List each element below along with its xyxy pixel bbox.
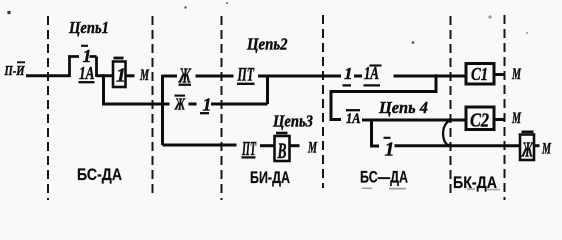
contact ПТ (circuit 2) value label bbox=[237, 65, 255, 86]
contact 1 (circuit 2 right) value label bbox=[343, 64, 353, 85]
svg-text:1: 1 bbox=[116, 65, 126, 87]
junction on circuit 1 bbox=[102, 74, 106, 78]
contact 1-bar (normally closed) value label bbox=[384, 138, 395, 161]
wire: contact Ж to contact ПТ bbox=[196, 75, 234, 78]
svg-text:ПТ: ПТ bbox=[237, 65, 255, 86]
svg-text:П-И: П-И bbox=[4, 64, 26, 79]
wire: dash between Ж-bar and 1 bbox=[189, 103, 197, 106]
svg-text:М: М bbox=[511, 110, 521, 127]
relay box С1 bbox=[466, 64, 494, 85]
svg-text:М: М bbox=[307, 139, 317, 156]
svg-text:Цепь2: Цепь2 bbox=[246, 35, 288, 54]
svg-text:БС—ДА: БС—ДА bbox=[360, 167, 408, 186]
contact 1А (circuit 2) value label bbox=[364, 63, 382, 85]
dashed boundary line 4 (БС-ДА 2 left) bbox=[322, 15, 324, 188]
dashed boundary line 2 bbox=[152, 16, 154, 198]
relay coil box 1 bbox=[113, 58, 126, 87]
contact ПТ (circuit 3) value label bbox=[241, 138, 256, 160]
svg-text:1: 1 bbox=[385, 139, 395, 161]
wire: node stub to contact ПТ (circuit 3) bbox=[163, 144, 237, 147]
wire: parallel branch of circuit 1 (up-over) bbox=[70, 57, 97, 78]
wire: box Ж to М bbox=[534, 144, 540, 147]
svg-text:БС-ДА: БС-ДА bbox=[77, 165, 122, 184]
scan speck bbox=[412, 41, 415, 44]
svg-text:М: М bbox=[139, 67, 149, 84]
wire: box В to М bbox=[290, 144, 300, 147]
junction to circuit 4 bbox=[434, 74, 438, 78]
svg-text:Ж: Ж bbox=[174, 95, 186, 114]
svg-text:Цепь 4: Цепь 4 bbox=[378, 98, 428, 117]
wire: box 1 to М bbox=[126, 74, 135, 77]
junction at node bbox=[161, 102, 165, 106]
contact 1 (Ж-1 row) value label bbox=[200, 94, 212, 114]
wire: branch from circuit 1 down and right to node bbox=[104, 76, 163, 104]
wire: contact 1-bar to box Ж bbox=[395, 144, 521, 147]
wire: ПТ to box В bbox=[260, 144, 275, 147]
scan speck bbox=[526, 32, 528, 34]
wire: contact 1А-bar to box С2 bbox=[362, 119, 466, 122]
wire: contact 1 to junction under ПТ bbox=[211, 103, 268, 106]
svg-text:Цепь1: Цепь1 bbox=[68, 18, 109, 37]
scan speck bbox=[184, 6, 186, 8]
contact 1А-bar (circuit 4) value label bbox=[346, 110, 361, 127]
wire: node vertical (joins rows Ж, Ж-1, ПТ-В) bbox=[161, 75, 164, 145]
relay box С2 bbox=[466, 107, 494, 132]
svg-text:1: 1 bbox=[344, 64, 353, 83]
wire: contact 1А to relay box 1 bbox=[97, 74, 114, 77]
dashed boundary line 3 (БИ-ДА left) bbox=[221, 16, 223, 200]
contact 1А (circuit 1) value label bbox=[79, 63, 95, 83]
contact Ж value label bbox=[178, 63, 192, 87]
wire: С1 to М bbox=[494, 73, 504, 76]
wire: input to contact 1А bbox=[26, 74, 70, 77]
dashed boundary line 5 (БК-ДА left) bbox=[450, 16, 452, 197]
contact Ж-bar (normally closed) value label bbox=[174, 95, 186, 114]
wire: Ж-1 branch row stub bbox=[163, 103, 170, 106]
scan speck bbox=[488, 15, 491, 18]
scan speck bbox=[487, 189, 500, 191]
wire: stub to contact Ж (circuit 2) bbox=[163, 75, 178, 78]
node П-Й input label bbox=[4, 62, 26, 79]
wire: С2 to М bbox=[494, 118, 504, 121]
svg-text:БИ-ДА: БИ-ДА bbox=[250, 168, 290, 187]
svg-text:М: М bbox=[511, 66, 521, 83]
wire: contact 1А to box С1 bbox=[394, 75, 467, 78]
svg-text:С1: С1 bbox=[471, 64, 488, 84]
scan speck bbox=[467, 188, 475, 190]
junction on С2 wire bbox=[448, 118, 452, 122]
scan speck bbox=[362, 188, 372, 190]
svg-text:В: В bbox=[277, 138, 287, 163]
wire: between contacts 1 and 1А bbox=[354, 75, 362, 78]
svg-text:М: М bbox=[541, 141, 551, 158]
scan speck bbox=[7, 11, 11, 15]
svg-text:1А: 1А bbox=[79, 63, 95, 83]
svg-text:Цепь3: Цепь3 bbox=[272, 111, 313, 130]
svg-text:С2: С2 bbox=[470, 110, 489, 132]
svg-text:1: 1 bbox=[203, 94, 212, 114]
wire: contact ПТ rightward across section line bbox=[258, 75, 341, 78]
wire: circuit 4 loop from junction down-left bbox=[331, 76, 436, 120]
wire: riser joining circuit 2 bbox=[266, 75, 269, 104]
svg-text:Ж: Ж bbox=[521, 138, 534, 162]
scan speck bbox=[389, 188, 406, 190]
relay box Ж (indicator) bbox=[520, 132, 534, 162]
wire: branch down from С2 row to 1-bar row bbox=[372, 120, 380, 146]
svg-text:1А: 1А bbox=[346, 111, 361, 127]
contact 1 (normally closed, top branch) value label bbox=[81, 46, 92, 66]
scan speck bbox=[226, 2, 228, 4]
dashed boundary line 6 (БК-ДА right) bbox=[504, 15, 506, 200]
relay coil box В bbox=[275, 133, 290, 163]
wire: curved jumper joining С2 wire and 1-bar wire bbox=[443, 121, 450, 146]
dashed boundary line 1 (БС-ДА left) bbox=[47, 16, 49, 200]
